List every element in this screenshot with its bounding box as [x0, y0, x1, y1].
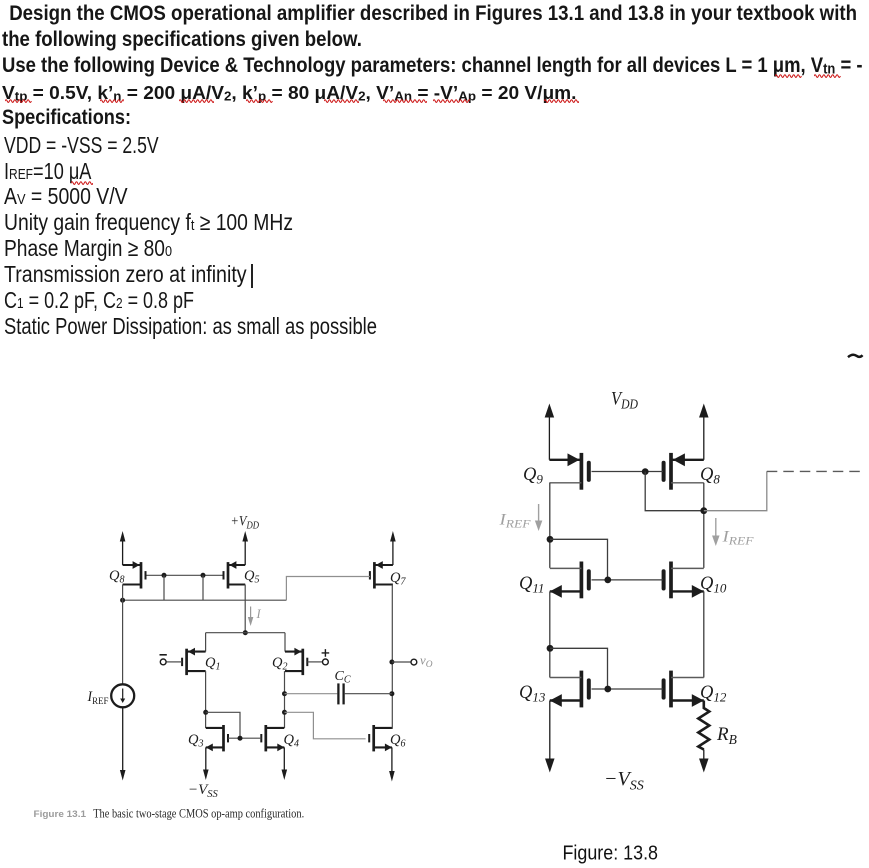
transistor Q3: [206, 725, 228, 751]
current source IREF: [111, 684, 134, 707]
transistor Q5: [224, 561, 246, 588]
node gate bus tap A: [162, 573, 167, 578]
transistor Q13: [550, 671, 589, 708]
transistor Q9: [549, 453, 588, 490]
wire Cc right plate: [345, 693, 392, 695]
current arrow IREF right: [715, 518, 717, 536]
VDD arrow above Q8b: [703, 418, 705, 460]
node output: [389, 660, 394, 665]
minus sign: [160, 654, 167, 656]
node Q3-Q4 gate: [238, 736, 243, 741]
transistor Q11: [550, 562, 589, 599]
wire Q11 source down: [549, 591, 551, 677]
wire bias bus: [123, 599, 287, 601]
wire to dashed branch: [704, 471, 767, 510]
svg-text:VDD: VDD: [611, 389, 638, 412]
terminal inverting input: [160, 659, 166, 665]
node gate row3: [604, 686, 611, 693]
svg-text:IREF: IREF: [498, 512, 531, 531]
wire Q3 gate to Q4 gate: [228, 737, 261, 739]
wire IREF to VSS arrow: [122, 707, 124, 770]
transistor Q7: [370, 561, 393, 588]
svg-text:Q13: Q13: [519, 683, 546, 705]
wire Q6 source to VSS: [391, 747, 393, 771]
wire Q7 drain to Q6 drain: [391, 585, 393, 729]
wire to output terminal: [392, 661, 411, 663]
wire stub B down to bias bus: [202, 575, 204, 600]
VDD supply arrow above Q8: [122, 542, 124, 566]
transistor Q12: [664, 671, 704, 708]
svg-text:Figure: 13.8: Figure: 13.8: [563, 843, 659, 865]
stray tilde mark: [848, 355, 863, 357]
node Q8 drain-gate: [120, 598, 125, 603]
wire Q3 source to VSS: [205, 747, 207, 769]
wire noninverting input: [307, 661, 322, 663]
svg-text:Q8: Q8: [700, 465, 720, 487]
node diff pair tail: [243, 630, 248, 635]
node Cc right tap: [389, 691, 394, 696]
wire Cc left plate: [285, 693, 338, 695]
wire Q11 diode connection: [550, 539, 608, 580]
VDD supply arrow above Q7: [392, 542, 394, 566]
VDD arrow above Q9: [548, 418, 550, 460]
node Q8 drain: [700, 507, 707, 514]
current arrow I: [250, 607, 252, 618]
VDD supply arrow above Q5: [244, 542, 246, 566]
wire node to IREF source: [122, 600, 124, 684]
svg-text:−VSS: −VSS: [604, 768, 644, 794]
wire Q13 diode connection: [550, 648, 608, 689]
node Q1 drain / Q3 gate link: [203, 710, 208, 715]
current arrow IREF left: [538, 504, 540, 521]
transistor Q1: [182, 648, 206, 675]
transistor Q4: [261, 725, 284, 751]
svg-text:RB: RB: [716, 724, 737, 747]
wire Q8 diode connection: [645, 472, 704, 511]
svg-text:Q9: Q9: [523, 465, 543, 487]
wire Q1 drain down: [205, 671, 207, 728]
wire RB to VSS: [703, 750, 705, 759]
terminal vO: [411, 659, 417, 665]
node Q11 source / Q13 drain: [547, 645, 554, 652]
transistor Q6: [369, 725, 392, 751]
transistor Q8b: [664, 453, 704, 490]
transistor Q2: [285, 648, 307, 675]
wire Q1 source riser: [205, 633, 207, 652]
resistor RB: [698, 701, 709, 750]
wire Q8 drain down to node: [122, 585, 124, 601]
wire Q2 source riser: [284, 633, 286, 652]
wire inverting input: [166, 661, 182, 663]
transistor Q10: [664, 562, 704, 599]
transistor Q8: [123, 561, 146, 588]
wire bus riser to Q7 gate: [286, 577, 370, 601]
wire Q9 gate to Q8 gate: [592, 471, 663, 473]
wire Q11 gate to Q10 gate: [592, 579, 663, 581]
wire Q2 drain down: [284, 671, 286, 728]
wire to Q6 gate: [285, 712, 366, 739]
wire Q4 source to VSS: [283, 747, 285, 769]
node gate row1: [642, 468, 649, 475]
wire Q13 source to VSS: [549, 701, 551, 759]
wire tail to Q1/Q2 sources: [206, 632, 285, 634]
wire Q10 source down: [703, 591, 705, 677]
wire Q3 diode connection: [206, 712, 240, 738]
wire Q13 gate to Q12 gate: [592, 688, 663, 690]
plus sign: [322, 649, 330, 657]
wire Q9 drain down: [549, 483, 551, 568]
wire Q8 drain down: [703, 483, 705, 568]
node Q2 drain Q6 gate tap: [282, 710, 287, 715]
wire Q8 gate to Q5 gate: [147, 574, 223, 576]
svg-text:Q11: Q11: [519, 574, 544, 596]
capacitor Cc: [338, 683, 343, 704]
wire Q5 drain to diff pair tail: [244, 585, 246, 633]
dashed wire: [767, 470, 864, 472]
node Q9 drain: [547, 536, 554, 543]
wire stub A down to bias bus: [163, 575, 165, 600]
node gate bus tap B: [201, 573, 206, 578]
terminal noninverting input: [323, 659, 329, 665]
svg-text:IREF: IREF: [721, 529, 754, 548]
node Q2 drain Cc tap: [282, 691, 287, 696]
node gate row2: [604, 577, 611, 584]
